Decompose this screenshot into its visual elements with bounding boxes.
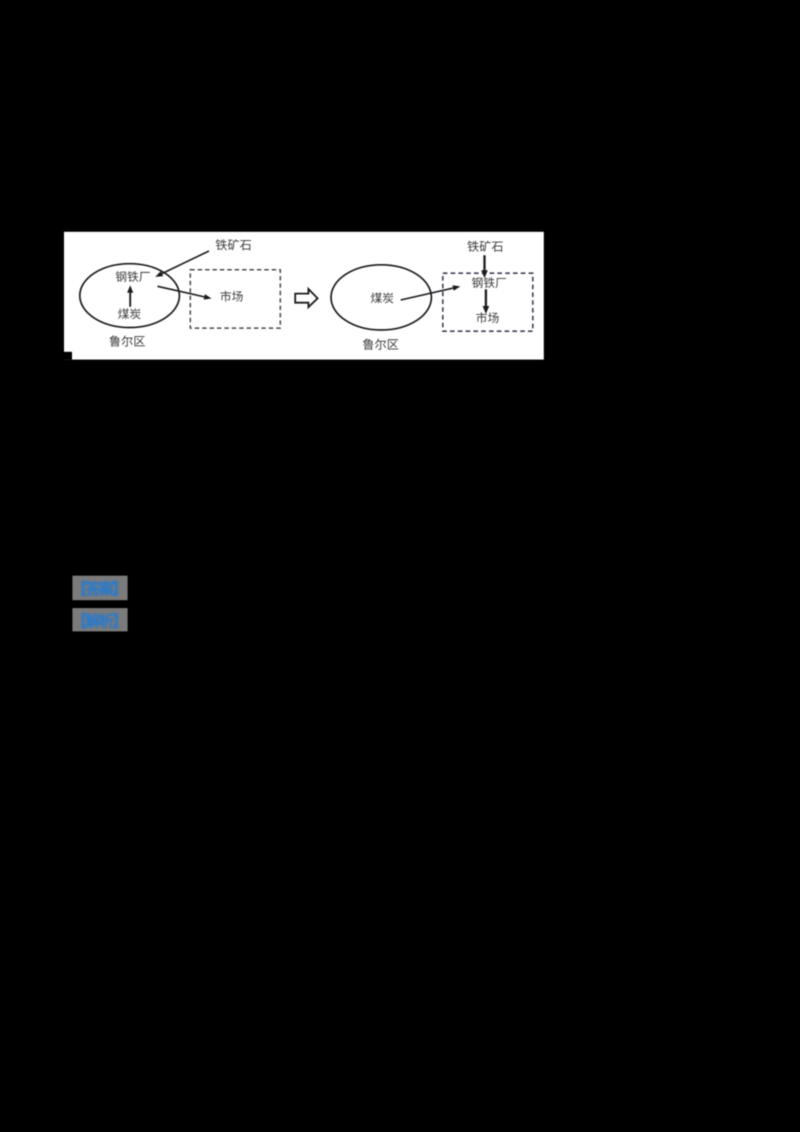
analysis button text 【解析】 <box>82 613 117 627</box>
left ellipse (Ruhr region before) <box>80 264 180 328</box>
black notch bottom-left of panel <box>64 352 72 360</box>
dashed box steel+market (right) <box>443 273 533 331</box>
arrow iron ore down to steel plant (right) <box>481 255 488 278</box>
white diagram panel background <box>64 232 544 360</box>
label 煤炭 right (coal) <box>371 292 394 303</box>
arrow coal to steel plant (left, vertical up) <box>127 285 133 307</box>
right ellipse (Ruhr region after) <box>331 265 431 330</box>
arrow coal to steel plant (right, diagonal) <box>401 285 461 300</box>
big hollow transition arrow <box>295 289 317 307</box>
label 钢铁厂 right (steel plant) <box>472 277 506 288</box>
label 铁矿石 right (iron ore) <box>467 241 502 252</box>
arrow steel plant to market (left) <box>158 286 212 299</box>
label 市场 right (market) <box>476 312 498 323</box>
answer button background <box>72 576 127 601</box>
label 煤炭 left (coal) <box>118 308 141 319</box>
arrow iron ore to steel plant (left, diagonal) <box>155 251 209 277</box>
analysis button background <box>72 608 127 631</box>
label 市场 left (market) <box>220 291 242 302</box>
label 鲁尔区 right (Ruhr area) <box>363 339 399 350</box>
label 鲁尔区 left (Ruhr area) <box>109 335 145 346</box>
label 铁矿石 left (iron ore) <box>216 239 251 250</box>
label 钢铁厂 left (steel plant) <box>116 271 150 282</box>
dashed box market (left) <box>190 270 280 328</box>
arrow steel plant down to market (right) <box>483 289 490 314</box>
answer button text 【答案】 <box>82 581 117 595</box>
